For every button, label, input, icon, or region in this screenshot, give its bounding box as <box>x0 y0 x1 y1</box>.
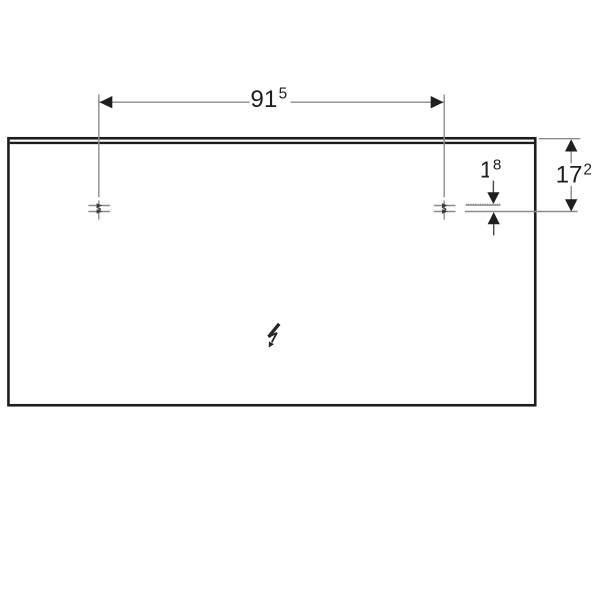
extension line left (from dim 91.5 down to left fixing point) <box>98 95 100 198</box>
svg-text:17: 17 <box>556 162 583 189</box>
svg-text:1: 1 <box>480 156 493 182</box>
dimension 1.8 upper arrow (pointing down) <box>492 181 494 193</box>
dimension 91.5 right arrowhead <box>431 96 444 108</box>
dimension 17.2 bottom arrowhead (pointing down) <box>565 199 577 211</box>
dimension 17.2 top arrowhead (pointing up) <box>565 139 577 151</box>
dimension 91.5 left arrowhead <box>100 96 113 108</box>
svg-text:2: 2 <box>583 161 592 178</box>
svg-text:5: 5 <box>279 85 288 102</box>
top-right extension line (from mirror top edge) <box>539 138 581 140</box>
dimension line 17.2 (vertical, with text gap) <box>570 151 572 163</box>
lower reference line (long, to dim 17.2) <box>465 211 578 213</box>
svg-text:91: 91 <box>250 86 277 113</box>
lightning bolt (electrical connection symbol) <box>269 324 280 348</box>
mirror outline <box>8 138 535 405</box>
left fixing point symbol <box>88 200 110 219</box>
dimension line 91.5 (horizontal, with text gap) <box>100 101 250 103</box>
right fixing point symbol <box>434 200 456 219</box>
svg-text:8: 8 <box>493 157 501 174</box>
dimension 1.8 lower arrow (pointing up) <box>488 212 500 224</box>
mirror top inner edge line <box>10 142 534 144</box>
extension line right (from dim 91.5 down to right fixing point) <box>443 95 445 198</box>
upper reference line (fixing level, short, dotted edge) <box>466 204 501 206</box>
